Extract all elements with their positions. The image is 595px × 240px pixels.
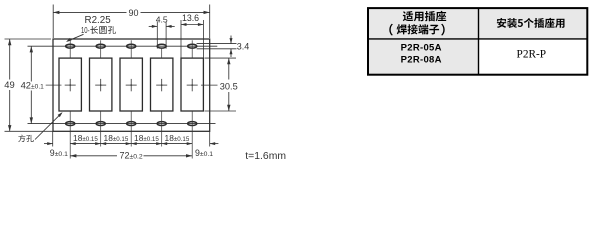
svg-text:t=1.6mm: t=1.6mm	[245, 151, 286, 162]
center tick top hole 4	[161, 48, 163, 58]
svg-text:90: 90	[128, 8, 138, 18]
center tick top hole 1	[69, 40, 71, 58]
svg-text:9±0.1: 9±0.1	[50, 148, 68, 158]
dim 72±0.2	[70, 155, 117, 157]
ext plate right bottom	[209, 131, 211, 146]
svg-text:4.5: 4.5	[156, 14, 168, 24]
ext plate left bottom	[52, 131, 54, 146]
table: socket selection	[368, 8, 587, 75]
ext line left for 90	[52, 5, 54, 39]
svg-text:30.5: 30.5	[220, 81, 238, 91]
oblong hole top 3	[127, 44, 136, 48]
label square hole (fang kong)	[18, 135, 33, 143]
ext line 4.5 left	[156, 22, 158, 49]
slot 2 center mark	[100, 79, 102, 91]
svg-text:13.6: 13.6	[182, 13, 199, 23]
slot 3 center mark	[130, 79, 132, 91]
ext line 4.5 right	[165, 22, 167, 49]
svg-text:18±0.15: 18±0.15	[165, 133, 190, 143]
plate mid centerline left stub	[46, 84, 62, 86]
oblong hole bottom 5	[188, 122, 197, 126]
svg-text:10-: 10-	[81, 25, 90, 35]
dim line 90 right part	[141, 11, 210, 13]
ext bottom for 49	[5, 130, 53, 132]
square hole slot 4	[151, 58, 173, 111]
bottom hole centerline	[28, 123, 216, 125]
dim line 90 left part	[53, 11, 126, 13]
center tick top hole 3	[130, 40, 132, 58]
center tick / extension bottom hole 3	[130, 111, 132, 147]
square hole slot 1	[59, 58, 81, 111]
slot 5 center mark	[191, 79, 193, 91]
table header col1 line2	[389, 24, 393, 36]
oblong hole bottom 1	[66, 122, 75, 126]
svg-text:3.4: 3.4	[237, 41, 250, 51]
svg-text:9±0.1: 9±0.1	[195, 148, 213, 158]
svg-text:P2R-05A: P2R-05A	[401, 43, 442, 54]
oblong hole top 5	[188, 44, 197, 48]
slot 4 center mark	[161, 79, 163, 91]
oblong hole top 4	[157, 44, 166, 48]
svg-text:18±0.15: 18±0.15	[73, 133, 98, 143]
square hole slot 3	[120, 58, 142, 111]
svg-text:P2R-08A: P2R-08A	[401, 55, 442, 66]
dim 42±0.1	[30, 46, 32, 81]
leader square hole	[35, 113, 62, 139]
center tick / extension bottom hole 4	[161, 111, 163, 147]
square hole slot 2	[90, 58, 112, 111]
svg-text:42±0.1: 42±0.1	[21, 80, 45, 91]
center tick / extension bottom hole 1	[69, 111, 71, 159]
center tick / extension bottom hole 5	[191, 111, 193, 159]
ext slot top for 30.5	[205, 57, 237, 59]
svg-text:49: 49	[4, 79, 14, 90]
oblong hole top 1	[66, 44, 75, 48]
oblong hole bottom 3	[127, 122, 136, 126]
plate mid centerline right stub	[201, 84, 218, 86]
square hole slot 5	[181, 58, 203, 111]
center tick top hole 5	[191, 40, 193, 58]
center tick / extension bottom hole 2	[100, 111, 102, 147]
top hole centerline	[28, 45, 218, 47]
svg-text:R2.25: R2.25	[85, 15, 112, 26]
leader to oblong hole 1	[67, 34, 83, 41]
ext line 13.6 left	[180, 20, 182, 58]
svg-text:18±0.15: 18±0.15	[134, 133, 159, 143]
svg-text:18±0.15: 18±0.15	[104, 133, 129, 143]
dim 3.4	[230, 36, 232, 44]
outside arrow left 9	[44, 143, 53, 145]
oblong hole bottom 4	[157, 122, 166, 126]
ext line 13.6 right	[202, 20, 204, 58]
table header col2	[497, 18, 565, 28]
hole5 top edge extension	[197, 43, 237, 45]
ext top for 49	[5, 38, 52, 40]
ext slot bottom for 30.5	[205, 110, 237, 112]
svg-text:P2R-P: P2R-P	[517, 48, 547, 60]
svg-text:72±0.2: 72±0.2	[120, 151, 143, 161]
table header col1 line1	[403, 11, 446, 21]
slot 1 center mark	[69, 79, 71, 91]
plate outline	[53, 39, 210, 131]
outside arrow right 9	[210, 143, 219, 145]
oblong hole bottom 2	[96, 122, 105, 126]
ext line right for 90	[209, 5, 211, 39]
center tick top hole 2	[100, 40, 102, 58]
hole5 bottom edge extension	[197, 48, 237, 50]
chain dim line 18x4	[70, 143, 192, 145]
oblong hole top 2	[96, 44, 105, 48]
